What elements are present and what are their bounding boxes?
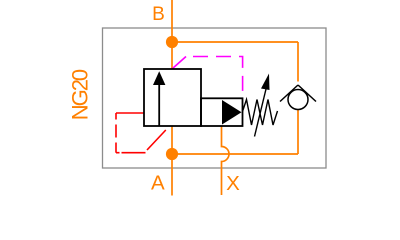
svg-text:X: X <box>226 172 240 195</box>
svg-text:A: A <box>151 172 165 195</box>
svg-text:NG20: NG20 <box>67 69 92 120</box>
svg-text:B: B <box>152 4 165 25</box>
